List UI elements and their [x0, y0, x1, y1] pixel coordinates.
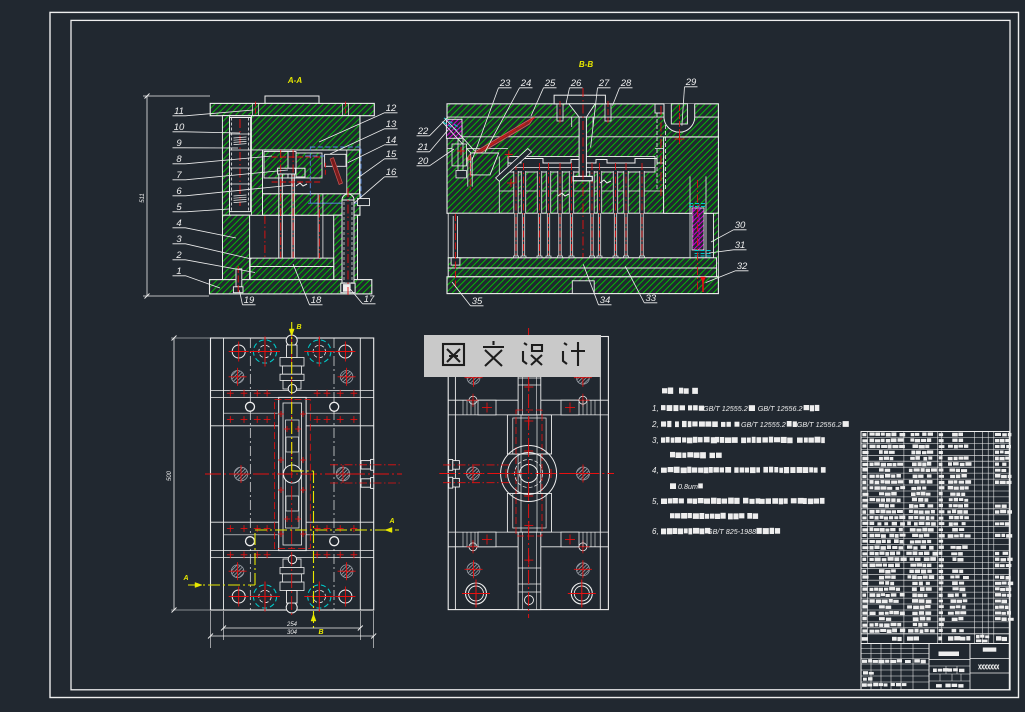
svg-text:B-B: B-B	[579, 60, 593, 69]
svg-text:GB/T 12555.2: GB/T 12555.2	[703, 404, 748, 413]
svg-text:304: 304	[287, 630, 298, 636]
svg-text:GB/T 12555.2: GB/T 12555.2	[741, 420, 786, 429]
svg-text:B: B	[318, 629, 323, 636]
svg-text:3,: 3,	[652, 436, 659, 445]
svg-text:500: 500	[167, 470, 173, 481]
svg-text:A: A	[182, 575, 188, 582]
svg-text:254: 254	[286, 622, 298, 628]
svg-text:25: 25	[544, 78, 556, 89]
svg-text:511: 511	[140, 193, 146, 203]
svg-text:26: 26	[570, 78, 582, 89]
svg-text:0.8um: 0.8um	[678, 482, 698, 491]
svg-text:4,: 4,	[652, 466, 659, 475]
svg-text:GB/T 12556.2: GB/T 12556.2	[758, 404, 803, 413]
svg-text:A-A: A-A	[287, 76, 302, 85]
svg-text:29: 29	[685, 77, 697, 88]
svg-text:24: 24	[520, 78, 532, 89]
svg-text:1,: 1,	[652, 404, 659, 413]
svg-text:27: 27	[598, 78, 610, 89]
svg-text:11: 11	[174, 106, 184, 117]
svg-text:2,: 2,	[651, 420, 659, 429]
svg-text:23: 23	[499, 78, 511, 89]
svg-text:B: B	[296, 324, 301, 331]
svg-text:GB/T 825-1988: GB/T 825-1988	[707, 527, 756, 536]
svg-text:GB/T 12556.2: GB/T 12556.2	[797, 420, 842, 429]
svg-text:28: 28	[620, 78, 632, 89]
svg-text:12: 12	[386, 103, 397, 114]
svg-text:5,: 5,	[652, 497, 659, 506]
svg-text:A: A	[388, 518, 394, 525]
svg-text:6,: 6,	[652, 527, 659, 536]
